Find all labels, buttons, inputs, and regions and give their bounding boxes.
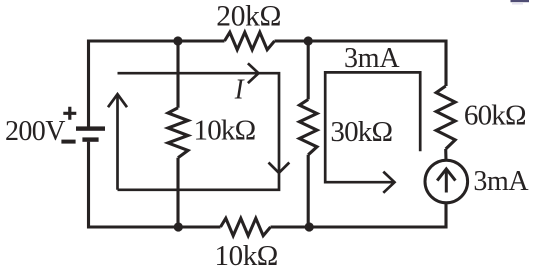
svg-text:I: I bbox=[234, 74, 245, 106]
svg-text:10kΩ: 10kΩ bbox=[215, 240, 278, 271]
svg-text:3mA: 3mA bbox=[473, 166, 529, 197]
svg-text:60kΩ: 60kΩ bbox=[464, 100, 526, 132]
svg-text:200V: 200V bbox=[5, 116, 65, 147]
svg-text:10kΩ: 10kΩ bbox=[194, 114, 256, 146]
svg-text:30kΩ: 30kΩ bbox=[330, 116, 392, 148]
svg-text:3mA: 3mA bbox=[344, 43, 400, 74]
svg-text:20kΩ: 20kΩ bbox=[216, 1, 281, 33]
